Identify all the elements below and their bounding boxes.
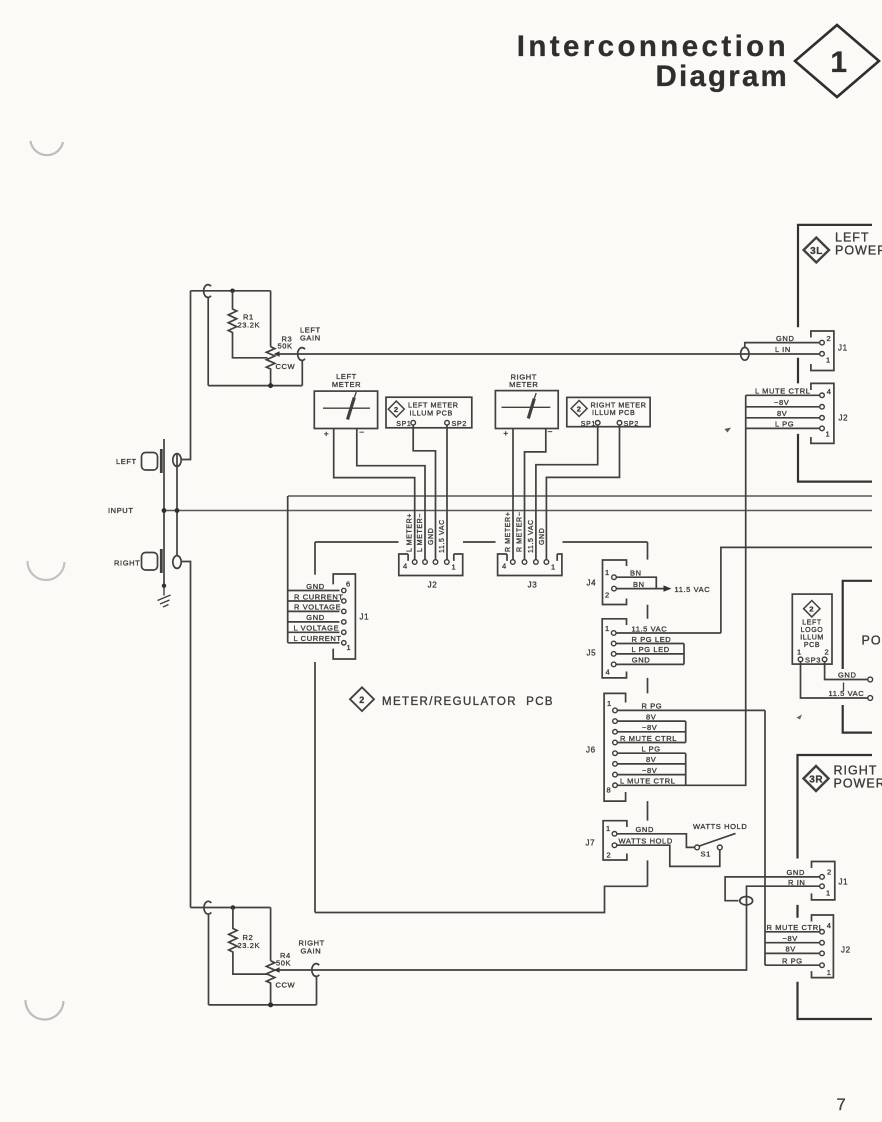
svg-text:−8V: −8V: [642, 766, 657, 775]
shield column between jacks: [176, 454, 178, 556]
J2 LP row L PG: [746, 427, 820, 429]
J6 row 8V b: [617, 763, 686, 765]
svg-text:L PG: L PG: [775, 420, 794, 429]
svg-text:SP2: SP2: [452, 419, 467, 428]
logo pins: [798, 657, 803, 662]
svg-text:+: +: [503, 428, 509, 438]
bottom circuit bottom wire: [209, 1004, 317, 1006]
RIGHT METER ILLUM PCB box: [567, 397, 650, 426]
J2 RP row -8V: [765, 942, 820, 944]
wire R4 wiper to R IN (long): [279, 886, 820, 970]
svg-text:S1: S1: [701, 850, 711, 859]
wire left meter plus to J2 pin4: [334, 429, 415, 561]
junction dot R2 top: [231, 905, 236, 910]
power supply pcb outline (cut): [843, 581, 872, 733]
svg-text:L PG LED: L PG LED: [632, 645, 670, 654]
J2 LP pins: [820, 393, 825, 398]
diamond 2 meter/regulator: [350, 687, 374, 711]
svg-text:1: 1: [452, 563, 457, 572]
svg-text:L METER+: L METER+: [407, 513, 414, 552]
J1 row L VOLTAGE: [288, 631, 340, 633]
svg-text:1: 1: [606, 824, 611, 833]
svg-text:1: 1: [607, 699, 612, 708]
connector J6 box: [604, 693, 626, 801]
svg-text:8: 8: [607, 786, 612, 795]
J4 pins: [612, 575, 617, 580]
svg-text:1: 1: [551, 563, 556, 572]
svg-text:−: −: [548, 427, 554, 437]
svg-text:INPUT: INPUT: [108, 506, 134, 515]
svg-text:23.2K: 23.2K: [238, 941, 261, 950]
J7 WATTS HOLD wire: [617, 845, 720, 866]
diamond 2 left meter illum: [388, 401, 404, 417]
svg-text:1: 1: [797, 648, 802, 657]
switch S1 terminals: [695, 845, 700, 850]
svg-text:2: 2: [359, 695, 365, 705]
svg-text:LEFT: LEFT: [802, 620, 822, 627]
svg-text:1: 1: [605, 568, 610, 577]
wire LEFT jack to gain network: [181, 291, 190, 460]
left power amp outline: [798, 225, 872, 482]
input jack RIGHT flange: [160, 549, 163, 573]
wire J5 11.5VAC riser and long line: [721, 547, 872, 633]
J5 rows closure: [683, 644, 685, 665]
J6 row -8V a: [617, 731, 686, 733]
ground junction dot: [162, 584, 166, 588]
svg-text:1: 1: [605, 624, 610, 633]
svg-text:J7: J7: [586, 839, 596, 848]
connector J7 box: [603, 821, 627, 860]
svg-text:L METER−: L METER−: [417, 513, 424, 552]
svg-text:GAIN: GAIN: [300, 334, 321, 343]
connector J1 meter pcb box: [333, 574, 355, 659]
diamond 3R: [804, 766, 829, 791]
svg-text:2: 2: [827, 868, 832, 877]
svg-text:CCW: CCW: [276, 362, 296, 371]
svg-text:4: 4: [827, 387, 832, 396]
binder hole middle: [27, 561, 64, 580]
svg-text:1: 1: [347, 643, 352, 652]
resistor R1: [228, 291, 267, 358]
potentiometer R3 top lead: [270, 291, 272, 347]
svg-text:11.5 VAC: 11.5 VAC: [528, 519, 535, 553]
logo pin2 wire to GND terminal: [825, 662, 868, 680]
wire bus drop to J1 rows: [287, 496, 289, 643]
shield loop on bottom top wire: [204, 901, 211, 914]
svg-text:3L: 3L: [810, 246, 823, 257]
svg-text:Diagram: Diagram: [656, 60, 789, 93]
svg-text:R METER+: R METER+: [505, 512, 512, 552]
logo pin1 wire to 11.5 VAC terminal: [801, 662, 868, 698]
top circuit bottom wire: [208, 385, 302, 387]
meter/regulator pcb outline top edge: [315, 541, 648, 543]
svg-text:1: 1: [830, 46, 847, 79]
J4 BN wire 1: [616, 577, 656, 588]
svg-text:METER: METER: [509, 380, 538, 389]
ground symbol: [158, 586, 171, 607]
binder hole bottom: [25, 1000, 63, 1020]
shield stub left (bottom circuit): [208, 914, 210, 1005]
shield loop on wiper wire: [298, 348, 305, 361]
wire left SP2 to J2 pin1: [446, 425, 448, 560]
svg-text:2: 2: [577, 404, 582, 413]
long wire upper signal bus: [288, 495, 872, 497]
terminal circles: [868, 677, 873, 682]
shield stub left (top circuit): [207, 297, 209, 385]
shield stub right (top circuit): [301, 360, 303, 385]
wire left SP1 to J2 pin2: [413, 425, 435, 560]
svg-text:2: 2: [605, 591, 610, 600]
svg-text:4: 4: [606, 668, 611, 677]
svg-text:R PG: R PG: [782, 957, 803, 966]
SP2 left circle: [445, 420, 450, 425]
J6 row L PG: [617, 752, 686, 754]
svg-text:J4: J4: [587, 579, 597, 588]
svg-text:4: 4: [827, 921, 832, 930]
svg-text:50K: 50K: [276, 959, 291, 968]
diamond 3L: [804, 238, 829, 263]
svg-text:SP1: SP1: [581, 421, 596, 428]
svg-text:23.2K: 23.2K: [238, 321, 261, 330]
connector J1 left power box: [811, 331, 834, 371]
svg-text:METER/REGULATOR PCB: METER/REGULATOR PCB: [382, 696, 554, 708]
svg-text:LEFT: LEFT: [116, 457, 137, 466]
J5 row 11.5 VAC: [616, 632, 721, 634]
shield loop on R IN riser: [740, 897, 753, 905]
svg-text:RIGHT: RIGHT: [114, 559, 140, 568]
input jack LEFT body: [142, 453, 158, 471]
svg-text:−8V: −8V: [774, 398, 789, 407]
svg-text:R IN: R IN: [788, 878, 805, 887]
svg-text:J5: J5: [587, 649, 597, 658]
top gain circuit: top wire: [191, 290, 271, 292]
svg-text:CCW: CCW: [276, 981, 296, 990]
svg-text:GND: GND: [838, 671, 856, 680]
connector J1 right power box: [812, 862, 835, 900]
long wire INPUT bus: [164, 510, 872, 512]
svg-text:SP2: SP2: [624, 419, 639, 428]
svg-text:METER: METER: [332, 380, 361, 389]
J1 pin circles: [342, 588, 346, 592]
wire right SP2 to J3 pin1: [546, 425, 619, 560]
svg-text:GAIN: GAIN: [301, 947, 322, 956]
potentiometer R4 top lead: [270, 908, 272, 961]
svg-text:J2: J2: [428, 581, 438, 590]
harness to right power J2: [764, 710, 766, 965]
svg-text:PCB: PCB: [804, 642, 820, 649]
svg-text:R MUTE CTRL: R MUTE CTRL: [620, 734, 677, 743]
svg-text:GND: GND: [306, 582, 324, 591]
svg-text:GND: GND: [428, 528, 435, 545]
svg-text:WATTS HOLD: WATTS HOLD: [619, 837, 673, 846]
svg-text:R MUTE CTRL: R MUTE CTRL: [767, 923, 824, 932]
J5 row GND: [616, 663, 684, 665]
shield loop at RIGHT jack: [173, 556, 181, 569]
svg-text:J1: J1: [838, 344, 848, 353]
svg-text:RIGHT: RIGHT: [834, 764, 878, 778]
speck b: [797, 715, 803, 720]
svg-text:2: 2: [394, 405, 399, 414]
shield loop on top wire: [204, 285, 211, 298]
svg-text:−8V: −8V: [642, 723, 657, 732]
SP1 left circle: [411, 420, 416, 425]
svg-text:L MUTE CTRL: L MUTE CTRL: [620, 777, 676, 786]
diamond 2 logo: [804, 601, 820, 617]
svg-text:J3: J3: [528, 581, 538, 590]
input jack LEFT flange: [160, 449, 163, 473]
connector J3 meter box: [498, 554, 562, 576]
svg-text:2: 2: [809, 605, 814, 614]
svg-text:1: 1: [826, 889, 831, 898]
svg-text:LOGO: LOGO: [801, 627, 824, 634]
connector J2 right power box: [812, 915, 834, 978]
LEFT METER box: [314, 391, 377, 428]
GND wire to J1 RP: [725, 877, 820, 901]
connector J4 box: [603, 560, 627, 605]
svg-text:L IN: L IN: [775, 345, 791, 354]
svg-text:J2: J2: [839, 414, 849, 423]
svg-text:1: 1: [826, 356, 831, 365]
junction dot R3 bottom: [268, 383, 273, 388]
svg-text:ILLUM PCB: ILLUM PCB: [410, 409, 453, 418]
svg-text:J1: J1: [360, 613, 370, 622]
wire RIGHT jack to gain network: [181, 562, 190, 908]
J2 RP row 8V: [765, 952, 820, 954]
meter/regulator pcb outline bottom edge: [315, 886, 648, 912]
junction dot input line a: [162, 508, 167, 513]
svg-text:POWER: POWER: [834, 777, 882, 791]
J1 row R VOLTAGE: [288, 610, 340, 612]
wire right SP1 to J3 pin2: [536, 425, 598, 560]
J2 RP pins: [820, 930, 825, 935]
junction dot input line b: [175, 508, 180, 513]
speck a: [725, 428, 732, 433]
wire R3 wiper to L IN (long): [279, 353, 820, 355]
J1 row L CURRENT: [288, 642, 340, 644]
J2 LP row 8V: [746, 417, 820, 419]
svg-text:R PG: R PG: [642, 702, 663, 711]
J2 RP row R PG: [765, 964, 820, 966]
svg-text:7: 7: [837, 1096, 846, 1114]
harness tick: [843, 683, 845, 692]
svg-text:R PG LED: R PG LED: [632, 635, 672, 644]
svg-text:2: 2: [827, 334, 832, 343]
J6 row L MUTE CTRL: [617, 784, 746, 786]
svg-text:L CURRENT: L CURRENT: [294, 634, 342, 643]
wire right meter plus to J3 pin4: [512, 429, 514, 561]
svg-text:4: 4: [403, 562, 408, 571]
resistor R2: [229, 908, 268, 975]
meter/regulator pcb outline left edge: [314, 542, 316, 913]
svg-text:8V: 8V: [786, 945, 796, 954]
svg-text:ILLUM: ILLUM: [800, 635, 824, 642]
svg-text:J6: J6: [586, 746, 596, 755]
svg-text:11.5 VAC: 11.5 VAC: [632, 624, 668, 633]
J1 RP pins: [820, 875, 825, 880]
svg-text:POWER: POWER: [835, 244, 882, 258]
svg-text:R VOLTAGE: R VOLTAGE: [294, 603, 341, 612]
connector J2 left power box: [811, 383, 834, 443]
J5 pins: [611, 631, 616, 636]
svg-text:PO: PO: [862, 634, 882, 648]
J6 pins: [613, 708, 618, 713]
svg-text:4: 4: [502, 562, 507, 571]
J2 pin circles: [412, 560, 417, 565]
svg-text:GND: GND: [776, 334, 794, 343]
junction dot R1 top: [230, 289, 235, 294]
svg-text:+: +: [324, 429, 330, 439]
junction dot R4 bottom: [268, 1002, 273, 1007]
R4 wiper arrow: [274, 967, 280, 972]
J1 row R CURRENT: [288, 600, 340, 602]
SP2 right circle: [617, 421, 622, 426]
bottom gain circuit: top wire: [191, 907, 271, 909]
input jack RIGHT body: [142, 553, 158, 571]
svg-text:J2: J2: [841, 946, 851, 955]
shield loop at LEFT jack: [173, 454, 181, 467]
svg-text:ILLUM PCB: ILLUM PCB: [592, 408, 635, 417]
J1 LP pins: [820, 340, 825, 345]
switch S1 lever: [699, 833, 735, 846]
harness to left power J2: [745, 395, 747, 785]
arrow to 11.5 VAC: [664, 585, 672, 591]
shield loop on R4 wiper wire: [312, 964, 319, 977]
svg-text:BN: BN: [630, 569, 642, 578]
svg-text:1: 1: [826, 430, 831, 439]
J6 row 8V a: [617, 720, 686, 722]
J6 row -8V b: [617, 774, 686, 776]
svg-text:GND: GND: [636, 825, 654, 834]
svg-text:GND: GND: [539, 528, 546, 545]
J7 GND wire to switch: [617, 834, 695, 848]
shield stub right (bottom circuit): [316, 976, 318, 1005]
svg-text:11.5 VAC: 11.5 VAC: [675, 585, 711, 594]
svg-text:−: −: [359, 427, 365, 437]
svg-text:8V: 8V: [646, 712, 656, 721]
J1 row GND: [288, 590, 340, 592]
svg-text:L VOLTAGE: L VOLTAGE: [294, 624, 340, 633]
SP1 right circle: [595, 421, 600, 426]
svg-text:L PG: L PG: [642, 745, 661, 754]
meter/regulator pcb outline right edge: [647, 542, 649, 886]
svg-text:2: 2: [607, 851, 612, 860]
svg-text:11.5 VAC: 11.5 VAC: [829, 689, 865, 698]
svg-text:WATTS HOLD: WATTS HOLD: [693, 822, 747, 831]
svg-text:SP3: SP3: [805, 655, 821, 664]
right power amp outline: [798, 755, 873, 1019]
J5 row L PG LED: [616, 653, 684, 655]
svg-text:GND: GND: [306, 613, 324, 622]
svg-text:50K: 50K: [278, 342, 293, 351]
wire left meter minus to J2 pin3: [357, 429, 425, 561]
svg-text:11.5 VAC: 11.5 VAC: [439, 519, 446, 553]
potentiometer R3 element: [266, 347, 274, 386]
svg-text:1: 1: [827, 968, 832, 977]
J1 row GND 2: [288, 621, 340, 623]
RIGHT METER needle: [528, 399, 534, 419]
RIGHT METER box: [495, 391, 558, 429]
potentiometer R4 element: [266, 961, 274, 1005]
svg-text:LEFT: LEFT: [835, 231, 870, 245]
svg-text:6: 6: [346, 580, 351, 589]
J7 pins: [612, 832, 617, 837]
svg-text:8V: 8V: [646, 755, 656, 764]
svg-text:R METER−: R METER−: [516, 512, 523, 552]
left logo illum pcb box: [792, 594, 832, 664]
svg-text:L MUTE CTRL: L MUTE CTRL: [755, 387, 811, 396]
J2 LP row L MUTE CTRL: [746, 394, 820, 396]
RIGHT METER scale line: [502, 406, 551, 408]
J6 row R MUTE CTRL: [617, 742, 686, 744]
input jack panel line: [163, 439, 165, 586]
connector J5 box: [602, 619, 626, 678]
connector J2 meter box: [399, 554, 463, 576]
J5 row R PG LED: [616, 643, 684, 645]
GND wire to J1 LP: [745, 343, 820, 348]
svg-text:R CURRENT: R CURRENT: [294, 592, 344, 601]
svg-text:SP1: SP1: [396, 421, 411, 428]
LEFT METER ILLUM PCB box: [386, 397, 472, 428]
R3 wiper arrow: [274, 351, 280, 356]
title diamond 1: [795, 25, 879, 97]
svg-text:3R: 3R: [809, 774, 823, 785]
J2 LP row -8V: [746, 406, 820, 408]
J6 rows closure upper: [685, 721, 687, 742]
svg-text:2: 2: [825, 648, 830, 657]
J2 RP row R MUTE CTRL: [765, 931, 820, 933]
svg-text:BN: BN: [633, 580, 645, 589]
svg-text:GND: GND: [632, 656, 650, 665]
J6 rows closure lower: [685, 753, 687, 785]
J6 row R PG: [617, 709, 765, 711]
J4 BN wire 2: [616, 588, 664, 590]
svg-text:−8V: −8V: [783, 934, 798, 943]
LEFT METER scale line: [323, 407, 370, 409]
svg-text:J1: J1: [839, 878, 849, 887]
shield loop on L IN wire: [741, 347, 749, 360]
LEFT METER needle: [348, 398, 355, 420]
wire right meter minus to J3 pin3: [525, 429, 546, 561]
diamond 2 right meter illum: [571, 401, 587, 417]
svg-text:Interconnection: Interconnection: [517, 30, 789, 63]
J3 pin circles: [511, 560, 516, 565]
svg-text:GND: GND: [787, 868, 805, 877]
binder hole top: [31, 141, 64, 155]
svg-text:8V: 8V: [777, 409, 787, 418]
